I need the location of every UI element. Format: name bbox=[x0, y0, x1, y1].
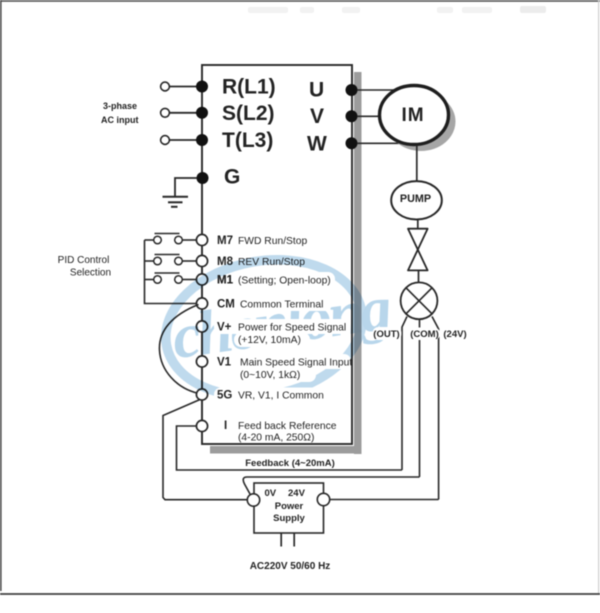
svg-text:(OUT): (OUT) bbox=[373, 329, 399, 340]
svg-text:(Setting; Open-loop): (Setting; Open-loop) bbox=[238, 276, 331, 287]
page border left bbox=[0, 0, 2, 591]
terminal S(L2) bbox=[196, 102, 275, 125]
svg-text:AC input: AC input bbox=[101, 115, 139, 125]
input circle T bbox=[161, 136, 170, 145]
switch bus wire bbox=[145, 240, 197, 304]
motor IM shadow bbox=[387, 92, 456, 151]
page border bottom rule bbox=[0, 593, 600, 595]
power supply box bbox=[254, 483, 324, 533]
wire COM to 0V bbox=[243, 477, 419, 494]
svg-text:V+: V+ bbox=[217, 322, 232, 334]
svg-text:(COM): (COM) bbox=[410, 329, 439, 340]
wire sensor OUT down bbox=[402, 317, 407, 471]
svg-text:Selection: Selection bbox=[70, 268, 111, 279]
terminal T(L3) bbox=[196, 129, 273, 152]
svg-text:FWD Run/Stop: FWD Run/Stop bbox=[238, 236, 308, 247]
svg-text:U: U bbox=[309, 79, 324, 102]
label halo M1 description bbox=[217, 272, 335, 288]
svg-text:S(L2): S(L2) bbox=[222, 102, 275, 125]
wire sensor COM down bbox=[419, 320, 421, 477]
svg-text:3-phase: 3-phase bbox=[103, 101, 137, 111]
svg-text:Feedback (4~20mA): Feedback (4~20mA) bbox=[245, 458, 335, 469]
motor IM bbox=[380, 86, 449, 145]
switch M1 bbox=[145, 273, 197, 283]
svg-text:0V: 0V bbox=[265, 488, 277, 499]
wire R input bbox=[169, 86, 197, 88]
label halo 5G description bbox=[214, 388, 328, 403]
svg-text:VR, V1, I Common: VR, V1, I Common bbox=[238, 391, 324, 402]
pressure sensor bbox=[401, 282, 438, 319]
wire G to ground bbox=[175, 178, 197, 196]
3-phase AC input label bbox=[101, 101, 139, 125]
svg-text:(24V): (24V) bbox=[443, 329, 466, 340]
input circle S bbox=[161, 108, 170, 117]
wire CM to 5G curve bbox=[159, 305, 198, 394]
wire T input bbox=[169, 139, 197, 141]
terminal G bbox=[197, 166, 241, 189]
terminal V bbox=[310, 105, 358, 128]
label halo V+ description bbox=[214, 319, 350, 347]
wire S input bbox=[169, 112, 197, 114]
terminal W bbox=[307, 132, 358, 155]
terminal I bbox=[196, 420, 336, 444]
svg-text:(4-20 mA, 250Ω): (4-20 mA, 250Ω) bbox=[238, 433, 314, 444]
svg-text:V: V bbox=[310, 105, 324, 128]
svg-text:T(L3): T(L3) bbox=[222, 129, 273, 152]
faint header smudge bbox=[248, 6, 546, 13]
power supply 24V circle bbox=[317, 493, 329, 505]
svg-text:5G: 5G bbox=[217, 390, 232, 402]
svg-text:R(L1): R(L1) bbox=[222, 76, 276, 99]
wire U to motor bbox=[357, 89, 398, 91]
svg-text:I: I bbox=[224, 420, 227, 432]
wire motor to pump bbox=[416, 146, 418, 182]
wire V to motor bbox=[357, 115, 382, 117]
svg-text:24V: 24V bbox=[288, 488, 306, 499]
label halo OUT bbox=[373, 327, 402, 340]
terminal CM bbox=[196, 298, 323, 311]
svg-text:Power: Power bbox=[275, 501, 304, 512]
switch M7 bbox=[145, 234, 197, 244]
power supply 0V circle bbox=[247, 494, 259, 506]
PID control selection label bbox=[58, 255, 111, 279]
svg-text:W: W bbox=[307, 132, 327, 155]
switch M8 bbox=[145, 255, 197, 265]
svg-text:CM: CM bbox=[217, 299, 235, 311]
input circle R bbox=[161, 82, 170, 91]
svg-text:PUMP: PUMP bbox=[400, 193, 431, 205]
wire I to feedback line bbox=[177, 426, 403, 470]
page border right bbox=[598, 0, 600, 594]
svg-text:M1: M1 bbox=[217, 275, 234, 287]
svg-text:(+12V, 10mA): (+12V, 10mA) bbox=[238, 335, 301, 346]
wire valve to sensor bbox=[418, 271, 420, 284]
label halo COM bbox=[409, 328, 440, 341]
svg-text:M7: M7 bbox=[217, 235, 233, 247]
inverter box shadow bbox=[210, 72, 362, 454]
svg-text:Main Speed Signal Input: Main Speed Signal Input bbox=[240, 358, 352, 369]
valve bbox=[408, 229, 428, 271]
svg-text:Common Terminal: Common Terminal bbox=[240, 300, 323, 311]
svg-text:(0~10V, 1kΩ): (0~10V, 1kΩ) bbox=[240, 370, 300, 381]
wire sensor 24V down bbox=[432, 317, 439, 500]
svg-text:Feed back Reference: Feed back Reference bbox=[238, 421, 337, 432]
terminal R(L1) bbox=[196, 76, 276, 99]
svg-text:IM: IM bbox=[401, 105, 424, 126]
wire 24V supply bbox=[330, 499, 439, 501]
label halo V1 description bbox=[214, 354, 352, 382]
terminal M8 bbox=[196, 255, 305, 268]
terminal U bbox=[309, 79, 358, 102]
svg-text:Supply: Supply bbox=[273, 513, 305, 524]
watermark logo bbox=[155, 245, 395, 411]
terminal M7 bbox=[196, 234, 307, 247]
svg-text:PID Control: PID Control bbox=[58, 255, 110, 266]
wire pump to valve bbox=[417, 219, 419, 229]
svg-text:Power for Speed Signal: Power for Speed Signal bbox=[238, 323, 346, 334]
wire W to motor bbox=[357, 142, 400, 144]
wire 5G to 0V bbox=[163, 400, 247, 500]
terminal 5G bbox=[196, 389, 324, 402]
page border top bbox=[0, 0, 600, 2]
ground bbox=[163, 197, 189, 207]
terminal V1 bbox=[196, 356, 352, 381]
label halo CM description bbox=[214, 296, 332, 312]
svg-text:AC220V 50/60 Hz: AC220V 50/60 Hz bbox=[250, 561, 331, 572]
svg-text:G: G bbox=[224, 166, 240, 189]
pump P1 bbox=[391, 181, 442, 219]
terminal M1 bbox=[196, 274, 330, 287]
power supply AC pins bbox=[281, 533, 294, 547]
terminal V+ bbox=[196, 321, 346, 346]
svg-text:V1: V1 bbox=[217, 357, 232, 369]
inverter main box bbox=[202, 65, 352, 444]
